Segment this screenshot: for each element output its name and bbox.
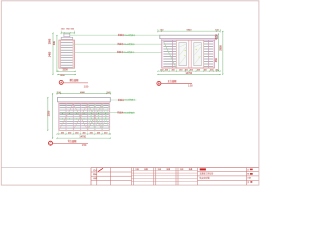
view A body (59, 40, 75, 68)
svg-text:C: C (49, 141, 51, 145)
svg-text:2895: 2895 (219, 45, 222, 51)
leader line 2 with label (73, 42, 162, 46)
svg-text:1800: 1800 (60, 75, 66, 77)
page border frame (1, 1, 259, 185)
title block left section (91, 168, 132, 186)
marker C (49, 139, 89, 147)
leader line 3 with label (75, 50, 162, 54)
svg-text:330: 330 (53, 40, 56, 45)
view C body frame (59, 103, 110, 130)
view B top dimension (157, 29, 220, 33)
view C bottom segment dimensions (57, 131, 111, 135)
view A cap box (61, 37, 72, 40)
view B body right edge (214, 40, 215, 68)
view B bottom segment dimensions (157, 69, 220, 72)
view B body bottom edge (162, 67, 215, 69)
title block middle columns (132, 167, 198, 185)
svg-text:1:50: 1:50 (84, 86, 89, 88)
leader line 1 with label (70, 33, 160, 37)
view B door 2 (191, 40, 204, 68)
view A top dimension texts (61, 29, 75, 31)
svg-text:2550: 2550 (215, 34, 218, 40)
view B door 1 (176, 40, 189, 68)
svg-text:2895: 2895 (49, 38, 52, 44)
view C vertical posts (59, 103, 110, 130)
view C left vertical dimensions (47, 93, 53, 138)
view C top dimension (57, 91, 111, 94)
view B top plate (160, 35, 218, 38)
title block project box (198, 168, 259, 180)
view B right siding (204, 40, 213, 67)
view C green rails (59, 113, 110, 119)
view C right leader 2 (109, 110, 135, 114)
view A top dimension line (61, 31, 75, 35)
svg-text:2550: 2550 (48, 110, 51, 116)
svg-text:1:50: 1:50 (82, 145, 87, 147)
view B overall width dimension (158, 72, 221, 75)
view A bottom dimension 2 (58, 74, 76, 77)
view B right vertical dimensions (215, 31, 224, 75)
view C overall width dimension (57, 136, 111, 139)
view A left vertical dimension lines (49, 33, 58, 75)
svg-text:450: 450 (215, 57, 218, 62)
view B body left edge (162, 40, 163, 68)
marker A (59, 78, 89, 89)
view C siding lines (59, 106, 109, 129)
title block right column (246, 167, 252, 185)
view A bottom dimension 1 (58, 69, 76, 72)
title block frame (2, 168, 259, 186)
view A chimney box (64, 34, 70, 37)
svg-text:1485: 1485 (49, 51, 52, 57)
view C magenta band (59, 102, 110, 104)
marker B (157, 79, 193, 87)
view C diagonal bracing (59, 104, 109, 129)
view C right leader 1 (110, 98, 136, 102)
view B left siding (163, 40, 176, 67)
view C top plate (58, 97, 111, 101)
view B magenta band (161, 39, 215, 40)
svg-text:1:50: 1:50 (188, 85, 193, 87)
svg-text:A: A (60, 81, 62, 85)
svg-text:B: B (158, 82, 160, 86)
